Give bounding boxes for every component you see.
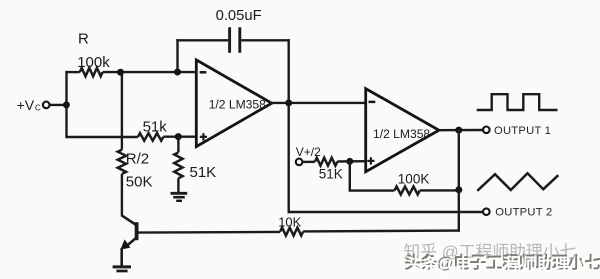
svg-text:51k: 51k: [143, 119, 168, 136]
op-amp U1 1/2 LM358: [196, 60, 271, 147]
svg-text:0.05uF: 0.05uF: [216, 8, 262, 24]
ground transistor emitter: [113, 267, 131, 271]
svg-text:R: R: [78, 31, 89, 48]
wire bottom to resistor 51k: [67, 136, 138, 138]
svg-text:头条@电子工程师助理小七: 头条@电子工程师助理小七: [406, 255, 600, 274]
square wave icon: [477, 94, 558, 110]
wire junction down: [349, 161, 351, 190]
resistor R7 10K: [280, 228, 303, 236]
resistor R3 R/2 50K: [118, 150, 126, 174]
op-amp U2 1/2 LM358: [366, 89, 439, 172]
wire 10K to transistor base: [137, 231, 281, 234]
wire to OUTPUT 2: [288, 211, 484, 213]
svg-text:51K: 51K: [319, 166, 343, 181]
capacitor C1 0.05uF: [230, 27, 240, 53]
wire resistor 51k to op-amp U1 non-inverting input: [163, 135, 196, 137]
svg-text:OUTPUT 2: OUTPUT 2: [495, 207, 552, 219]
wire op2 output to OUTPUT 1: [439, 129, 483, 132]
junction V+/2 node: [346, 158, 353, 165]
wire right vertical op1 output bus: [288, 39, 290, 213]
junction node R/C1: [117, 69, 124, 76]
wire resistor 51K to ground: [177, 178, 179, 192]
junction +Vc node: [63, 101, 70, 108]
resistor R4 51K: [174, 152, 182, 178]
resistor R1 100k: [80, 68, 103, 76]
resistor R5 51K: [315, 158, 337, 166]
wire top to resistor R: [65, 71, 79, 73]
triangle wave icon: [477, 173, 558, 191]
wire junction to resistor 51K: [177, 137, 179, 153]
wire 100K to output bus: [420, 189, 459, 191]
terminal +Vc: [43, 102, 50, 109]
transistor Q1: [120, 215, 137, 266]
svg-text:R/2: R/2: [126, 151, 149, 168]
svg-text:1/2 LM358: 1/2 LM358: [373, 127, 430, 141]
svg-text:10K: 10K: [278, 214, 301, 229]
svg-text:C: C: [35, 104, 41, 113]
wire to resistor 100K: [349, 189, 395, 191]
svg-text:100K: 100K: [398, 172, 430, 187]
svg-text:51K: 51K: [190, 164, 217, 181]
junction node 51k/51K: [175, 133, 182, 140]
junction 100K/output: [455, 186, 462, 193]
svg-text:OUTPUT 1: OUTPUT 1: [494, 125, 551, 137]
wire feedback to capacitor: [176, 39, 228, 41]
svg-text:50K: 50K: [126, 173, 153, 190]
svg-text:1/2 LM358: 1/2 LM358: [209, 97, 266, 111]
svg-text:100k: 100k: [77, 54, 110, 71]
resistor R6 100K: [395, 187, 420, 195]
wire op2 output down: [458, 130, 460, 232]
terminal OUTPUT 1: [483, 127, 490, 134]
junction op1 output node: [285, 99, 292, 106]
wire junction R down to R/2: [121, 72, 123, 150]
wire left vertical bus: [65, 71, 67, 138]
junction node feedback: [174, 69, 181, 76]
wire op1 output to op2 inverting input: [270, 102, 366, 104]
wire V+/2 to 51K: [303, 161, 315, 163]
wire down bus to 10K: [303, 229, 460, 232]
wire +Vc to junction: [50, 104, 67, 106]
resistor R2 51k: [138, 133, 163, 141]
ground 51K: [171, 193, 188, 201]
wire capacitor to right vertical: [241, 39, 290, 41]
terminal V+/2: [296, 159, 303, 166]
junction op2 output node: [455, 127, 462, 134]
wire resistor R to op-amp U1 inverting input: [103, 71, 197, 73]
wire 51K to op2 non-inverting input: [337, 160, 366, 163]
terminal OUTPUT 2: [483, 208, 490, 215]
svg-text:+V: +V: [17, 97, 35, 113]
node +Vc label: [17, 97, 41, 113]
wire R/2 to transistor collector: [121, 174, 123, 216]
wire feedback up from inverting node: [176, 39, 178, 72]
